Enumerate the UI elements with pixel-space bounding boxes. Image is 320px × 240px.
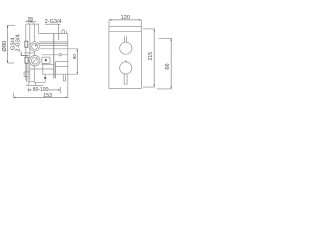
pipe line 4 [42, 54, 68, 56]
svg-text:215: 215 [148, 52, 154, 61]
outlet ext line [43, 73, 78, 75]
dim 66 arrows [170, 38, 172, 89]
dim 80 line (right of body) [76, 49, 78, 74]
spout vertical [44, 74, 46, 82]
lower handle stem [124, 74, 127, 84]
upper handle stub [124, 36, 126, 43]
upper handle circle [120, 42, 132, 54]
spout horizontal [29, 81, 45, 83]
plate vertical line 1 [25, 24, 27, 80]
body mid vertical 2 [54, 62, 56, 78]
side box with dot [42, 57, 50, 63]
upper port inner circle [32, 43, 38, 49]
plate top edge [26, 23, 39, 25]
pipe line 3 / dim ext [40, 48, 78, 50]
lower-left short horizontal 1 [24, 71, 30, 73]
dim 28 arrows [28, 21, 33, 23]
lower knob stub block [25, 57, 28, 63]
dim 153 arrows [13, 97, 67, 99]
dim 153 line [13, 96, 67, 98]
leader vertical to top port [58, 24, 60, 40]
dim 120 arrows [109, 19, 141, 21]
top port stub [62, 30, 65, 34]
body top edge [39, 33, 68, 35]
svg-text:66: 66 [165, 63, 171, 69]
lower-left tie vertical [23, 72, 25, 77]
leader to body [21, 52, 28, 56]
upper knob stub block [25, 41, 28, 47]
lower port slash [32, 58, 37, 63]
body right edge [67, 34, 69, 98]
plate vertical line 2 [29, 24, 31, 85]
dim 215 arrows [153, 29, 155, 87]
dim 120 line [109, 19, 141, 21]
dim 215 line [153, 29, 155, 87]
dim 28 extension lines [28, 22, 33, 24]
dim 215 ext bottom [143, 86, 155, 88]
spout nut [44, 77, 46, 79]
dim 80-100 line left [28, 89, 31, 91]
small circle on pipe [59, 54, 61, 56]
dim Ø80 top foot [8, 24, 16, 26]
svg-text:80: 80 [72, 54, 77, 60]
dim 80 arrows [77, 49, 79, 74]
mid short line [24, 52, 35, 54]
dim 66 line [170, 38, 172, 89]
svg-text:120: 120 [121, 15, 130, 21]
dim 80-100 line right [48, 89, 60, 91]
lower handle circle [120, 62, 132, 74]
plate vertical line 3 [33, 24, 35, 85]
dim 28 line [25, 21, 36, 23]
dim 80-100 ext right [59, 87, 61, 94]
top rear stub [66, 31, 68, 34]
pipe line 6 [42, 63, 55, 65]
pipe line 1a [39, 41, 68, 43]
dim 153 ext left [12, 93, 14, 98]
leader underline 2-G3/4 [45, 23, 61, 25]
svg-text:2-G3/4: 2-G3/4 [15, 34, 21, 51]
pipe line 2 [40, 44, 68, 46]
dim 120 ext right [140, 20, 142, 27]
down port stub [63, 74, 65, 81]
outlet arch [28, 81, 36, 85]
front plate [109, 27, 142, 89]
dim Ø80 bottom foot [8, 62, 14, 64]
plate vertical line 4 [38, 24, 40, 33]
dim 215 ext top [143, 28, 155, 30]
side box dot [45, 59, 47, 61]
dim Ø80 arrows [7, 25, 9, 63]
dim 80-100 ext left [27, 87, 29, 92]
below box vertical [42, 63, 44, 74]
pipe line 5 [55, 60, 68, 62]
outlet base line [26, 84, 44, 86]
dim Ø80 vertical line [7, 25, 9, 63]
body lower-right edge [55, 66, 68, 68]
lower-left short horizontal 2 [24, 76, 29, 78]
dim 80-100 arrows [28, 89, 60, 91]
lower port circle [30, 56, 40, 66]
plate inner top line [109, 30, 142, 32]
dim 66 ext bottom [157, 88, 172, 90]
upper port circle [30, 42, 39, 51]
lower handle notch [125, 61, 128, 63]
lower port inner circle [31, 57, 38, 64]
lower-left vertical 1 [25, 63, 27, 82]
lower-left vertical 2 [27, 63, 29, 82]
upper port center dot [35, 45, 37, 47]
body bottom edge [29, 68, 53, 70]
dim 120 ext left [108, 20, 110, 27]
svg-text:Ø80: Ø80 [2, 41, 8, 52]
pipe line 1b [39, 42, 68, 44]
dim 66 ext top [159, 37, 172, 39]
svg-text:153: 153 [43, 93, 52, 99]
body mid vertical [53, 34, 55, 79]
